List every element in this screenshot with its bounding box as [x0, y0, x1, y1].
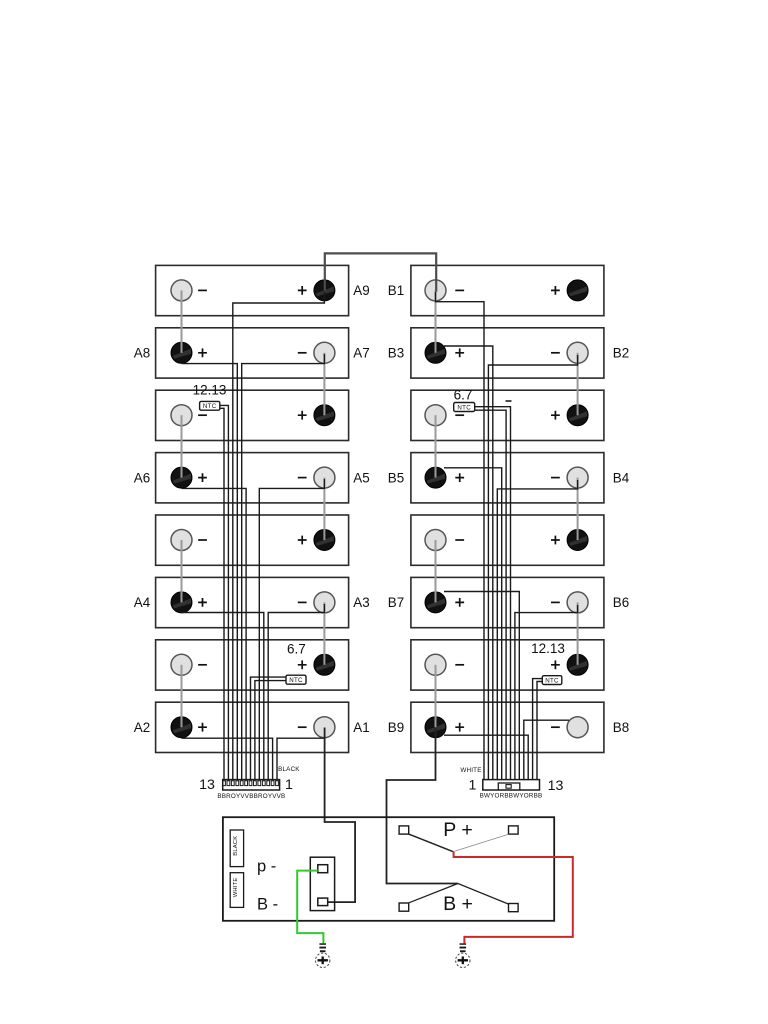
terminal cellA3- (negative)	[171, 405, 192, 426]
series link A pack left col rows 5-6	[181, 540, 183, 602]
svg-text:12.13: 12.13	[193, 383, 227, 398]
sense wire B6 to connector	[515, 605, 578, 780]
terminal A2+ (positive)	[171, 717, 192, 738]
terminal B7+ (positive)	[425, 592, 446, 613]
wire P+ pad-right to junction (thin)	[455, 834, 509, 851]
terminal B4- (negative)	[567, 467, 588, 488]
svg-text:B9: B9	[388, 720, 404, 735]
svg-text:B1: B1	[388, 283, 404, 298]
polarity sign minus B1-	[455, 289, 464, 291]
svg-text:NTC: NTC	[289, 677, 303, 684]
main wire B9+ to BMS B+ node	[387, 728, 458, 884]
polarity sign minus A7-	[298, 352, 307, 354]
polarity sign plus cellA5+	[298, 536, 307, 545]
polarity sign minus cellA3-	[198, 414, 207, 416]
sense wire B8 to connector	[524, 720, 569, 779]
series link B pack right col rows 4-5	[577, 478, 579, 540]
svg-text:13: 13	[548, 778, 564, 794]
battery block row 4 pack B	[411, 453, 604, 503]
terminal A5- (negative)	[314, 467, 335, 488]
svg-text:A1: A1	[353, 720, 369, 735]
BMS box outline	[223, 817, 554, 921]
sense wire B9 to connector	[444, 735, 528, 779]
terminal cellB3+ (positive)	[567, 405, 588, 426]
sense wire A4 to connector	[182, 613, 264, 780]
terminal pad P+ right	[509, 826, 519, 834]
polarity sign plus B1+	[551, 286, 560, 295]
NTC thermistor RT4 wires	[533, 679, 543, 780]
svg-text:6.7: 6.7	[454, 388, 473, 403]
polarity sign plus A4+	[198, 598, 207, 607]
svg-text:A5: A5	[353, 470, 369, 485]
main wire A1- to BMS connector	[325, 728, 356, 903]
terminal B9+ (positive)	[425, 717, 446, 738]
polarity sign plus A2+	[198, 723, 207, 732]
svg-text:A3: A3	[353, 595, 369, 610]
svg-text:A9: A9	[353, 283, 369, 298]
terminal A4+ (positive)	[171, 592, 192, 613]
series link B pack left col rows 3-4	[435, 415, 437, 477]
NTC thermistor RT3 wires	[475, 407, 511, 780]
series link B pack right col rows 2-3	[577, 353, 579, 415]
polarity sign plus cellB3+	[551, 411, 560, 420]
series link A pack right col rows 2-3	[323, 353, 325, 415]
terminal B3+ (positive)	[425, 342, 446, 363]
svg-text:p -: p -	[257, 858, 276, 876]
svg-text:A4: A4	[134, 595, 151, 610]
NTC thermistor RT1 wires	[220, 405, 229, 779]
NTC thermistor RT3 body	[454, 403, 475, 412]
green wire P- to chassis screw	[297, 871, 323, 944]
polarity sign minus A1-	[298, 726, 307, 728]
svg-text:NTC: NTC	[545, 678, 559, 685]
sense wire B7 to connector	[444, 592, 519, 780]
svg-text:BLACK: BLACK	[233, 836, 239, 856]
terminal cellA3+ (positive)	[314, 405, 335, 426]
svg-text:BWYORBBWYORBB: BWYORBBWYORBB	[480, 792, 543, 799]
NTC thermistor RT4 body	[542, 676, 562, 685]
terminal B8- (negative)	[567, 717, 588, 738]
polarity sign minus B2-	[551, 352, 560, 354]
tag BLACK (BMS)	[230, 830, 243, 867]
wire B+ junction to pad-right	[458, 884, 508, 905]
terminal B2- (negative)	[567, 342, 588, 363]
sense wire B4 to connector	[497, 480, 577, 780]
sense wire A5 to connector	[259, 479, 324, 780]
terminal cellA7+ (positive)	[314, 654, 335, 675]
svg-text:1: 1	[469, 778, 477, 794]
stray minus mark row3 B	[506, 400, 512, 402]
terminal A3- (negative)	[314, 592, 335, 613]
terminal A6+ (positive)	[171, 467, 192, 488]
NTC thermistor RT1 body	[200, 401, 220, 410]
sense wire B2 to connector	[488, 355, 577, 780]
svg-text:B2: B2	[613, 346, 629, 361]
svg-text:B7: B7	[388, 595, 404, 610]
terminal B1- (negative)	[425, 280, 446, 301]
polarity sign plus A8+	[198, 348, 207, 357]
svg-text:WHITE: WHITE	[460, 767, 481, 774]
series link A pack right col rows 4-5	[323, 478, 325, 540]
terminal B5+ (positive)	[425, 467, 446, 488]
polarity sign minus A5-	[298, 477, 307, 479]
series link B pack left col rows 7-8	[435, 665, 437, 727]
battery block row 8 pack B	[411, 702, 604, 752]
connector J2 WHITE 13-pin body	[483, 780, 540, 790]
terminal cellB7- (negative)	[425, 654, 446, 675]
svg-text:B8: B8	[613, 720, 629, 735]
terminal cellA5- (negative)	[171, 530, 192, 551]
battery block row 7 pack A	[156, 640, 349, 690]
battery block row 6 pack B	[411, 577, 604, 627]
series link A pack left col rows 1-2	[181, 290, 183, 352]
terminal cellA5+ (positive)	[314, 530, 335, 551]
polarity sign plus cellB5+	[551, 536, 560, 545]
svg-text:A8: A8	[134, 346, 150, 361]
polarity sign plus B7+	[455, 598, 464, 607]
terminal B1+ (positive)	[567, 280, 588, 301]
svg-text:A2: A2	[134, 720, 150, 735]
chassis screw terminal (red)	[460, 943, 467, 945]
series link A pack left col rows 7-8	[181, 665, 183, 727]
polarity sign plus B9+	[455, 723, 464, 732]
battery block row 3 pack B	[411, 390, 604, 440]
sense wire A7 to connector	[242, 354, 325, 780]
series link B pack left col rows 1-2	[435, 290, 437, 352]
wire P+ pad-left to junction	[409, 834, 454, 852]
sense wire B3 to connector	[444, 346, 493, 780]
BMS connector pin P- (top square)	[318, 865, 328, 873]
series link B pack right col rows 6-7	[577, 602, 579, 664]
polarity sign plus cellA7+	[298, 660, 307, 669]
svg-text:B +: B +	[443, 893, 473, 915]
battery block row 2 pack A	[156, 328, 349, 378]
battery block row 1 pack A	[156, 265, 349, 315]
sense wire B5 to connector	[444, 468, 502, 780]
sense wire A8 to connector	[182, 364, 238, 780]
svg-text:P +: P +	[443, 819, 472, 841]
svg-text:A7: A7	[353, 346, 369, 361]
polarity sign minus cellB7-	[455, 664, 464, 666]
series link A pack left col rows 3-4	[181, 415, 183, 477]
chassis screw terminal (green)	[319, 943, 326, 945]
svg-text:WHITE: WHITE	[233, 878, 239, 898]
svg-text:B3: B3	[388, 346, 404, 361]
battery block row 1 pack B	[411, 265, 604, 315]
svg-text:B5: B5	[388, 470, 404, 485]
svg-text:NTC: NTC	[457, 404, 471, 411]
NTC thermistor RT2 wires	[251, 677, 287, 780]
polarity sign minus A9-	[198, 289, 207, 291]
battery block row 3 pack A	[156, 390, 349, 440]
polarity sign plus cellA3+	[298, 411, 307, 420]
polarity sign minus cellA7-	[198, 664, 207, 666]
svg-text:13: 13	[199, 777, 215, 793]
battery block row 7 pack B	[411, 640, 604, 690]
terminal cellA7- (negative)	[171, 654, 192, 675]
BMS connector pin B- (bottom square)	[318, 898, 328, 906]
battery block row 5 pack B	[411, 515, 604, 565]
series link A pack right col rows 6-7	[323, 602, 325, 664]
svg-text:NTC: NTC	[203, 403, 217, 410]
svg-text:B6: B6	[613, 595, 629, 610]
polarity sign plus B5+	[455, 473, 464, 482]
sense wire A6 to connector	[182, 488, 247, 779]
BMS connector outline	[310, 857, 334, 910]
terminal pad B+ right	[509, 904, 519, 912]
polarity sign plus cellB7+	[551, 660, 560, 669]
polarity sign minus B8-	[551, 726, 560, 728]
polarity sign minus A3-	[298, 601, 307, 603]
sense wire A9 to connector	[233, 292, 325, 780]
interconnect wire A9+ to B1-	[325, 253, 436, 291]
terminal A9+ (positive)	[314, 280, 335, 301]
wire B+ junction to pad-left	[409, 884, 458, 903]
terminal pad B+ left	[399, 903, 409, 911]
terminal B6- (negative)	[567, 592, 588, 613]
terminal A8+ (positive)	[171, 342, 192, 363]
terminal cellB5- (negative)	[425, 530, 446, 551]
polarity sign plus B3+	[455, 348, 464, 357]
sense wire A2 to connector	[182, 738, 273, 779]
battery block row 2 pack B	[411, 328, 604, 378]
svg-text:BLACK: BLACK	[278, 766, 300, 773]
polarity sign minus cellB5-	[455, 539, 464, 541]
terminal pad P+ left	[399, 826, 409, 834]
sense wire A3 to connector	[268, 604, 324, 780]
svg-text:B -: B -	[257, 896, 278, 914]
terminal cellB3- (negative)	[425, 405, 446, 426]
terminal A9- (negative)	[171, 280, 192, 301]
NTC thermistor RT2 body	[286, 675, 306, 684]
svg-text:6.7: 6.7	[287, 642, 306, 657]
polarity sign plus A6+	[198, 473, 207, 482]
battery block row 5 pack A	[156, 515, 349, 565]
battery block row 8 pack A	[156, 702, 349, 752]
polarity sign plus A9+	[298, 286, 307, 295]
sense wire B1 to connector	[436, 292, 485, 780]
polarity sign minus cellA5-	[198, 539, 207, 541]
connector J1 BLACK 13-pin body	[223, 780, 280, 790]
polarity sign minus cellB3-	[455, 414, 464, 416]
red wire P+ to chassis screw	[454, 852, 573, 944]
svg-text:A6: A6	[134, 470, 150, 485]
battery block row 4 pack A	[156, 453, 349, 503]
terminal A1- (negative)	[314, 717, 335, 738]
svg-text:12.13: 12.13	[531, 641, 565, 656]
tag WHITE (BMS)	[230, 873, 243, 908]
series link B pack left col rows 5-6	[435, 540, 437, 602]
terminal A7- (negative)	[314, 342, 335, 363]
svg-text:BBROYVVBBROYVVB: BBROYVVBBROYVVB	[217, 793, 285, 800]
terminal cellB5+ (positive)	[567, 530, 588, 551]
battery block row 6 pack A	[156, 577, 349, 627]
polarity sign minus B4-	[551, 477, 560, 479]
sense wire A1 to connector	[277, 738, 324, 779]
terminal cellB7+ (positive)	[567, 654, 588, 675]
svg-text:1: 1	[285, 777, 293, 793]
svg-text:B4: B4	[613, 470, 630, 485]
polarity sign minus B6-	[551, 601, 560, 603]
